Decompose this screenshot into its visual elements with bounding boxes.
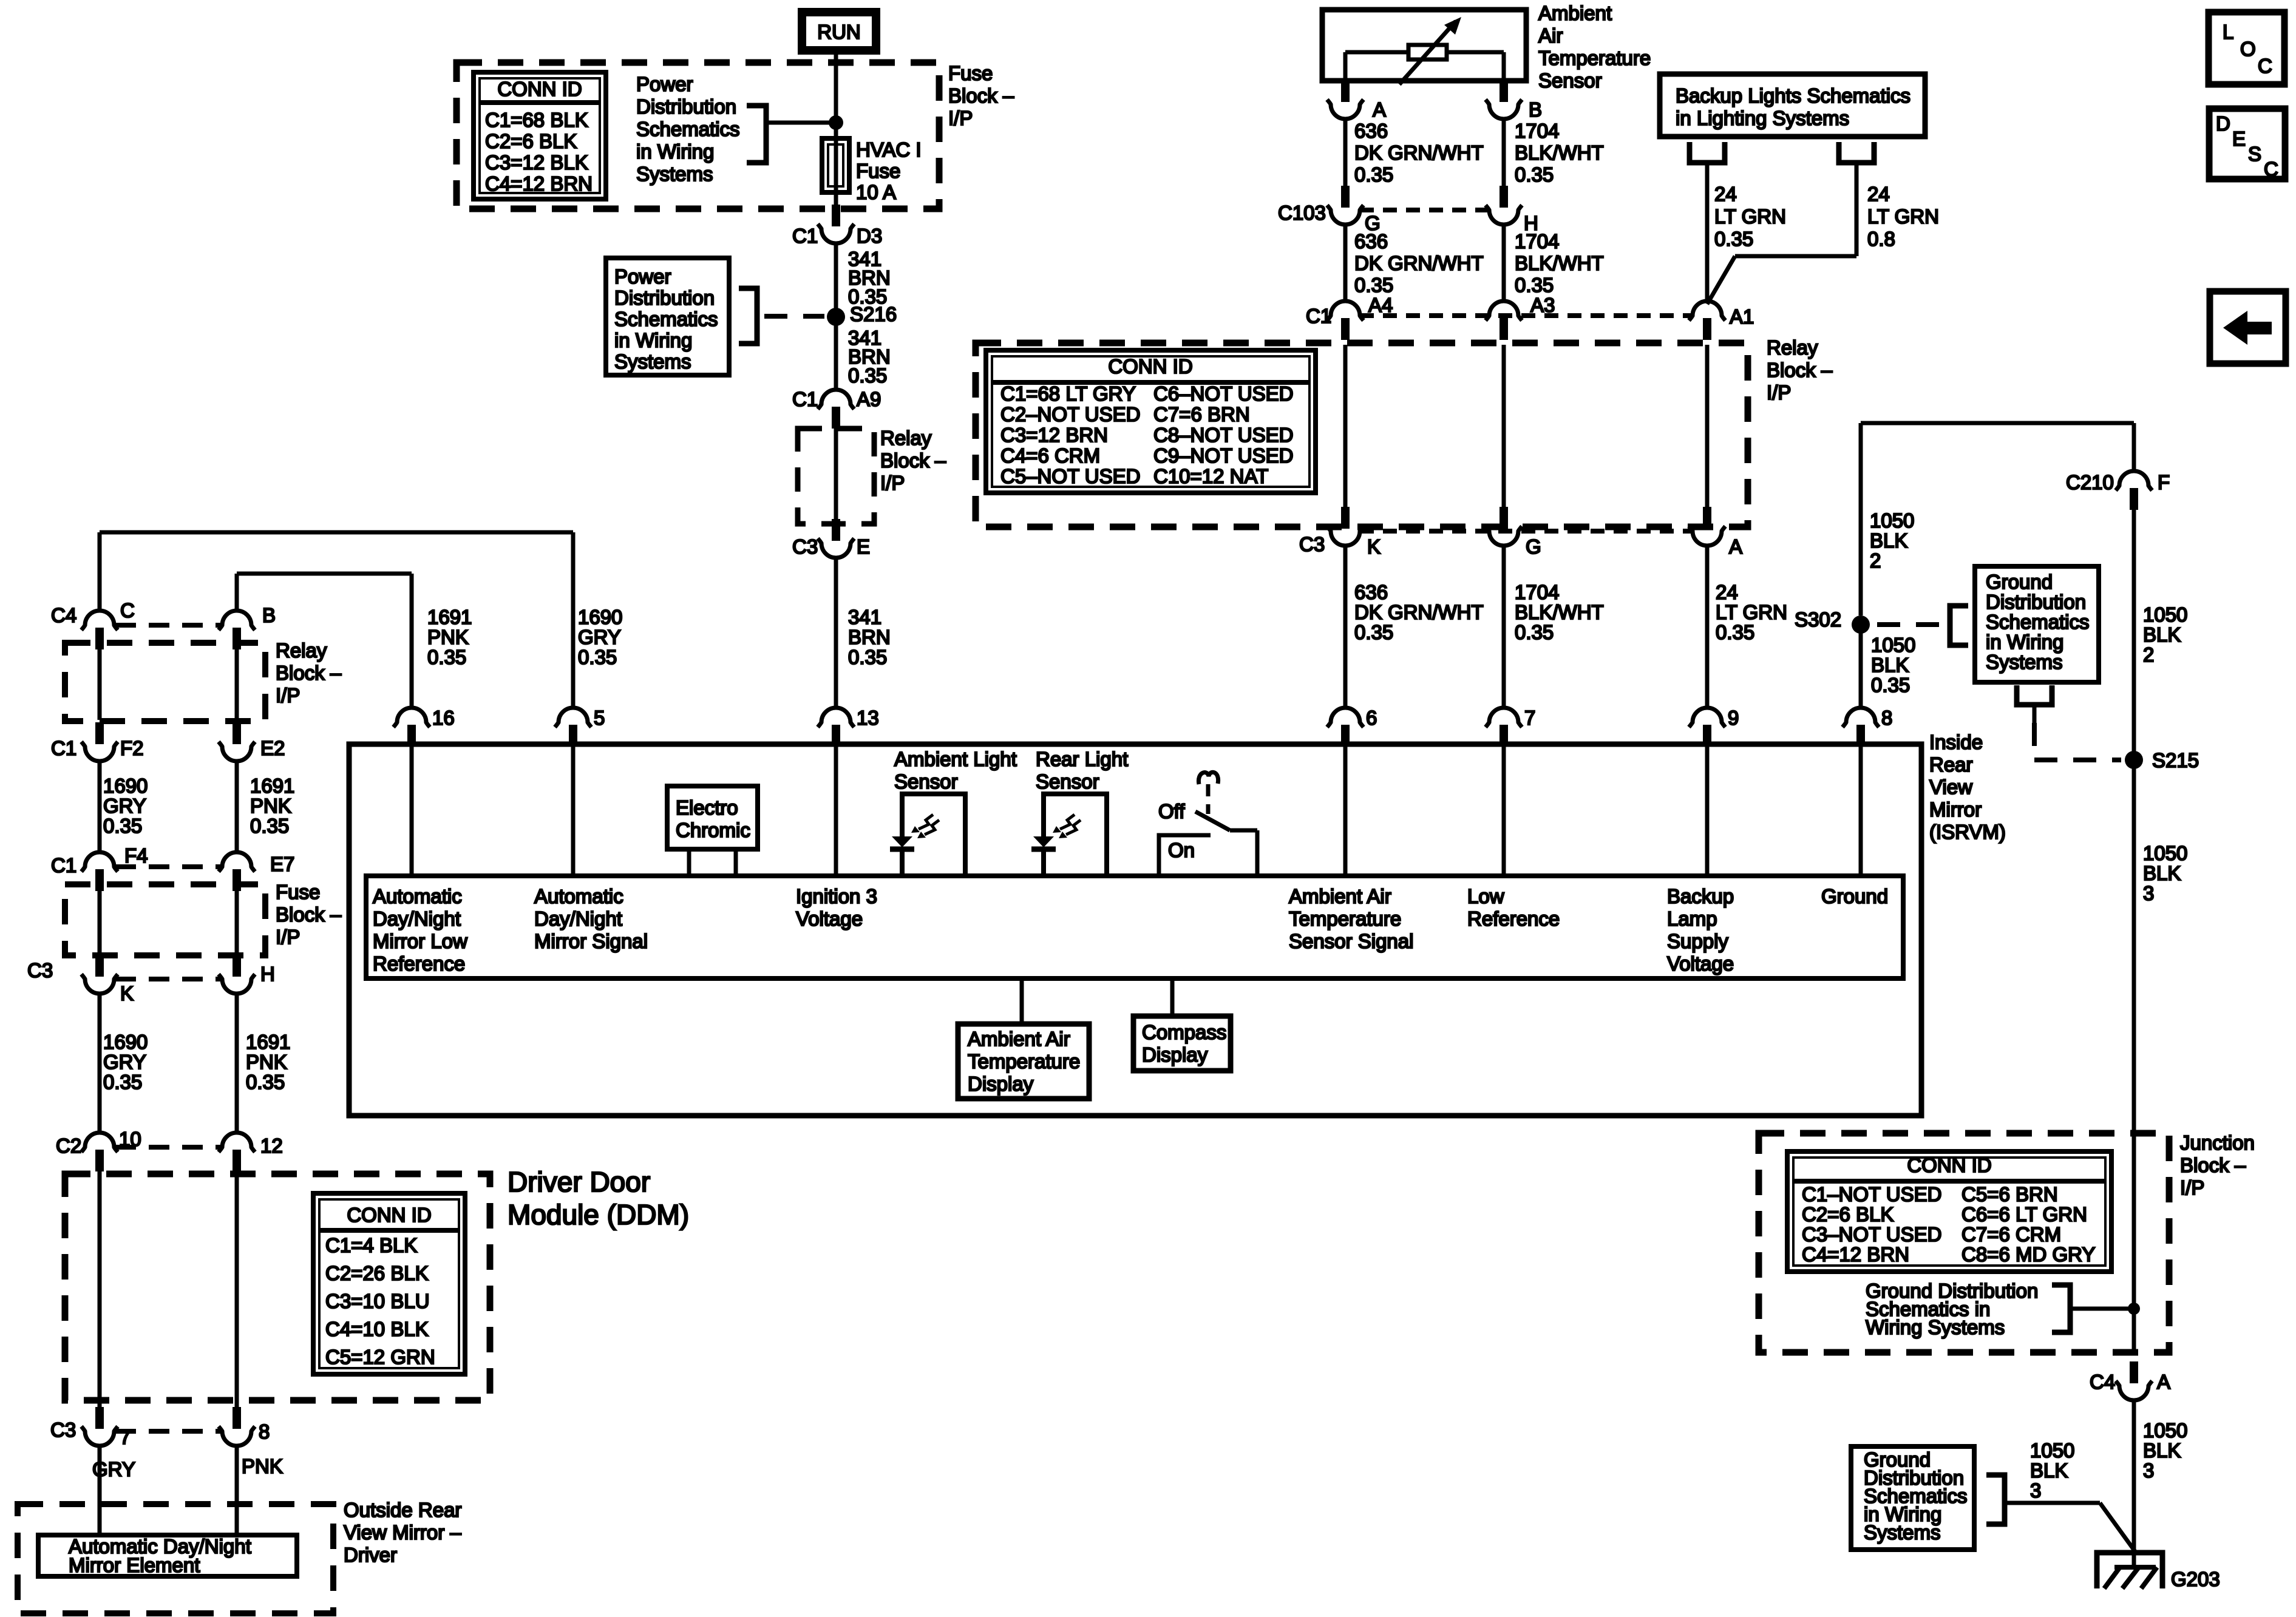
wire 24 LT GRN to pin 9 [1705,546,1710,708]
sensor lead right [1502,52,1506,82]
Power Distribution Schematics box [606,258,729,375]
LOC legend box [2209,12,2284,84]
svg-text:1690GRY0.35: 1690GRY0.35 [578,606,622,668]
svg-text:C1: C1 [792,388,818,410]
svg-text:C1=68 LT GRY: C1=68 LT GRY [1000,382,1136,405]
svg-text:D3: D3 [857,225,882,247]
wire through left relay block 2 [235,649,239,720]
svg-text:S216: S216 [850,303,897,325]
svg-text:8: 8 [259,1420,270,1443]
electro chromic element box [667,786,758,849]
svg-text:C1=4 BLK: C1=4 BLK [325,1234,417,1256]
wire 24 LT GRN 0.8 horizontal [1735,254,1856,259]
splice S302 [1852,615,1870,634]
connector E7 [219,852,255,891]
outside rear view mirror driver dashed box [18,1504,333,1613]
svg-text:O: O [2240,38,2256,60]
connector C103 H [1486,186,1522,225]
svg-text:1690GRY0.35: 1690GRY0.35 [103,775,148,837]
fork lead under ground distribution box [2017,685,2052,705]
connector C3 A [1689,507,1725,546]
Backup Lights Schematics box [1660,74,1925,137]
dashed link bracket to S216 [764,314,824,319]
dashed connector row C3 relay block [1360,529,1693,534]
connector C1 A9 [818,390,854,429]
svg-text:9: 9 [1728,707,1739,729]
svg-text:C3=10 BLU: C3=10 BLU [325,1290,430,1312]
svg-text:B: B [1529,98,1542,121]
wire bracket to node [769,121,836,125]
svg-text:C4=12 BRN: C4=12 BRN [485,172,593,195]
wire 1050 BLK 2 top horizontal [1861,421,2134,425]
inside rear view mirror ISRVM box [349,744,1921,1116]
Ground Distribution Schematics box right [1975,566,2099,682]
bracket to Ground Distribution box [1950,606,1968,645]
wire pin 6 stub inside ISRVM [1343,745,1348,876]
svg-text:A9: A9 [857,388,881,410]
variable resistor arrow [1399,21,1456,84]
splice S216 [827,308,845,326]
wire 1690 GRY down to C4-C [98,532,102,611]
connector ISRVM pin 13 [818,708,854,747]
svg-text:D: D [2216,112,2230,135]
wire 1704 BLK/WHT C103 to C1-A3 [1502,225,1506,302]
ambient air temperature sensor box [1322,10,1526,81]
node on junction wire [2128,1303,2140,1315]
CONN ID table relay block [986,350,1316,493]
wire 1050 BLK 2 down to S302 [1859,423,1863,615]
svg-text:C2=26 BLK: C2=26 BLK [325,1262,429,1284]
relay block I/P dashed box [976,343,1748,527]
svg-text:C1–NOT USED: C1–NOT USED [1802,1183,1941,1205]
bracket ground distribution junction [2052,1285,2070,1332]
svg-text:L: L [2223,21,2233,43]
wire 636 DK GRN/WHT sensor to C103 [1343,119,1348,186]
svg-text:6: 6 [1366,707,1377,729]
connector C3 pin 7 [81,1407,118,1446]
svg-text:C: C [2258,55,2272,77]
connector C3 K [1327,507,1364,546]
connector C1 F4 [81,852,118,891]
svg-text:AutomaticDay/NightMirror LowRe: AutomaticDay/NightMirror LowReference [373,885,467,975]
wire through DDM 1 [98,1171,102,1407]
svg-text:C3: C3 [792,535,818,558]
fork lead right of backup lights box [1839,142,1874,163]
svg-text:C3=12 BLK: C3=12 BLK [485,151,588,174]
wire pin 7 stub inside ISRVM [1502,745,1506,876]
wire 1704 BLK/WHT sensor to C103 [1502,119,1506,186]
variable resistor element [1408,45,1447,59]
connector C4 C [81,611,118,649]
svg-text:F4: F4 [124,844,148,867]
svg-text:H: H [260,963,275,985]
wire 24 LT GRN 0.35 to A1 [1705,163,1710,302]
svg-text:A: A [2157,1371,2170,1393]
svg-text:G: G [1526,535,1541,558]
svg-text:S215: S215 [2152,749,2199,771]
connector ISRVM pin 8 [1843,708,1879,747]
wire A3 to C3-G inside relay block [1502,345,1506,510]
connector B [219,611,255,649]
svg-text:C10=12 NAT: C10=12 NAT [1153,465,1268,487]
wire diagonal to ground [2100,1503,2135,1551]
junction block I/P dashed box [1759,1133,2169,1352]
svg-text:C1: C1 [1306,305,1331,327]
connector pin 12 [219,1133,255,1171]
wire GRY to mirror element [98,1446,102,1535]
ambient air temperature display box [958,1024,1089,1099]
svg-text:B: B [262,604,276,626]
Ground Distribution Schematics box bottom [1851,1446,1974,1550]
svg-text:C210: C210 [2066,471,2114,493]
svg-text:C4=10 BLK: C4=10 BLK [325,1318,429,1340]
wire through left relay block 1 [98,649,102,720]
connector ISRVM pin 9 [1689,708,1725,747]
svg-text:E7: E7 [270,853,294,875]
dashed connector row K H [115,977,221,981]
wire bracket to junction wire [2070,1307,2134,1311]
svg-text:CONN ID: CONN ID [1907,1154,1991,1176]
svg-text:C1: C1 [792,225,818,247]
wire 1691 PNK down to B [235,574,239,611]
svg-text:C5–NOT USED: C5–NOT USED [1000,465,1140,487]
dashed connector row C1 relay block [1360,313,1693,318]
sensor lead left [1343,52,1348,82]
svg-text:C3: C3 [27,959,53,981]
svg-text:C5=12 GRN: C5=12 GRN [325,1346,435,1368]
svg-text:C103: C103 [1278,202,1326,224]
wire pin 8 stub inside ISRVM [1859,745,1863,876]
wire 24 LT GRN diagonal to A1 [1707,256,1735,304]
stem under fork [2033,705,2037,723]
svg-text:E: E [2232,127,2246,150]
svg-text:C1: C1 [51,854,76,876]
switch off/on [1159,772,1257,876]
wire pin 16 stub inside ISRVM [410,745,414,876]
svg-text:16: 16 [432,707,455,729]
svg-text:BackupLampSupplyVoltage: BackupLampSupplyVoltage [1667,885,1734,975]
wire RUN voltage down to fuse block / HVAC I fuse [834,55,838,209]
svg-text:E: E [857,535,870,558]
wire 341 BRN from C1-D3 to S216 [834,243,838,308]
dashed connector row C2 [115,1145,221,1150]
svg-text:CONN ID: CONN ID [497,78,582,100]
wire 1691 PNK E2 to E7 [235,761,239,853]
dashed link down to S215 level [2032,723,2037,760]
ISRVM pin function label box [366,876,1903,978]
wire 1691 PNK horizontal [237,572,412,576]
svg-text:1691PNK0.35: 1691PNK0.35 [250,775,294,837]
connector C4 A [2116,1361,2152,1400]
wire inside sensor [1345,50,1504,55]
photodiode ambient light sensor [890,794,965,876]
connector C1 A3 [1486,301,1522,340]
svg-text:RUN: RUN [817,21,861,43]
compass display box [1133,1016,1231,1071]
svg-text:7: 7 [1524,707,1535,729]
svg-text:C4: C4 [51,604,76,626]
wire 1690 GRY K to DDM 10 [98,994,102,1133]
svg-text:C2: C2 [56,1134,81,1157]
wire 341 BRN from S216 to C1-A9 [834,317,838,390]
svg-text:GRY: GRY [92,1458,135,1480]
wire 1690 GRY F2 to F4 [98,761,102,853]
svg-text:C7=6 BRN: C7=6 BRN [1153,403,1250,425]
connector ISRVM pin 6 [1327,708,1364,747]
dashed connector row F4 E7 [115,864,221,869]
wire pin 5 stub inside ISRVM [571,745,576,876]
wire 1690 GRY top horizontal [100,531,573,535]
CONN ID table fuse block [474,72,606,199]
svg-text:C7=6 CRM: C7=6 CRM [1961,1223,2061,1246]
wire 1050 BLK 3 down to junction block [2132,768,2136,1352]
connector C1 D3 [818,205,854,243]
CONN ID table DDM [313,1193,465,1374]
ground G203 symbol [2097,1553,2162,1588]
svg-text:On: On [1168,839,1195,861]
svg-text:1691PNK0.35: 1691PNK0.35 [427,606,472,668]
wire PNK to mirror element [235,1446,239,1535]
fuse block I/P dashed box left [65,884,265,955]
svg-text:C3: C3 [50,1419,76,1441]
fork lead left of backup lights box [1690,142,1725,163]
wire 24 LT GRN 0.8 down [1855,163,1859,256]
bracket ground distribution bottom [1986,1475,2005,1524]
connector C3 G [1486,507,1522,546]
svg-text:F: F [2158,471,2170,493]
svg-text:C2=6 BLK: C2=6 BLK [485,130,577,152]
svg-text:8: 8 [1881,707,1892,729]
svg-text:C2–NOT USED: C2–NOT USED [1000,403,1140,425]
svg-text:K: K [1367,535,1381,558]
wire to ambient air temperature display [1020,978,1024,1026]
svg-text:A: A [1729,535,1742,558]
svg-text:1690GRY0.35: 1690GRY0.35 [103,1031,148,1093]
svg-text:C4: C4 [2090,1371,2115,1393]
svg-text:S: S [2248,143,2261,165]
svg-text:C3–NOT USED: C3–NOT USED [1802,1223,1941,1246]
svg-text:C2=6 BLK: C2=6 BLK [1802,1203,1894,1225]
svg-text:G203: G203 [2171,1568,2220,1590]
svg-text:A: A [1373,98,1386,121]
svg-text:C9–NOT USED: C9–NOT USED [1153,444,1293,467]
wire electro chromic leg left [687,849,691,876]
connector C210 F [2116,471,2152,510]
connector C1 F2 [81,722,118,761]
wire 1691 PNK H to DDM 12 [235,994,239,1133]
wire through relay block [834,429,838,519]
wire 1691 PNK down to pin 16 [410,574,414,708]
connector ISRVM pin 7 [1486,708,1522,747]
svg-text:5: 5 [594,707,605,729]
wire 1050 BLK 2 down to S215 [2132,510,2136,751]
wire A4 to C3-K inside relay block [1343,345,1348,510]
RUN ignition switch box [798,8,880,55]
connector C3 K left [81,955,118,994]
wire bracket toward ground [2005,1501,2100,1505]
svg-text:A1: A1 [1730,305,1754,328]
wire pin 13 stub inside ISRVM [834,745,838,876]
svg-text:Ground: Ground [1821,885,1888,907]
svg-text:C3=12 BRN: C3=12 BRN [1000,424,1108,446]
wire down to C210 [2132,423,2136,472]
bracket to Power Distribution box [739,288,757,344]
wire pin 9 stub inside ISRVM [1705,745,1710,876]
wire 1050 BLK 3 to G203 [2132,1400,2136,1567]
CONN ID table junction block [1787,1151,2111,1272]
svg-text:C1: C1 [51,737,76,759]
svg-text:C4=6 CRM: C4=6 CRM [1000,444,1100,467]
photodiode rear light sensor [1031,794,1107,876]
svg-text:C: C [2264,158,2278,180]
back arrow legend box [2210,291,2286,364]
relay block I/P dashed box left [65,643,265,721]
svg-text:C3: C3 [1299,533,1325,555]
wire through DDM 2 [235,1171,239,1407]
svg-text:C: C [120,599,135,622]
svg-text:C8–NOT USED: C8–NOT USED [1153,424,1293,446]
connector ISRVM pin 5 [555,708,591,747]
fuse block I/P dashed box [457,63,939,209]
wire A1 to C3-A inside relay block [1705,345,1710,510]
splice S215 [2125,751,2143,769]
svg-text:K: K [120,982,134,1005]
wire 1050 BLK 0.35 S302 to pin 8 [1859,633,1863,708]
connector E2 [219,722,255,761]
connector H left [219,955,255,994]
svg-text:C4=12 BRN: C4=12 BRN [1802,1243,1909,1266]
svg-text:C6–NOT USED: C6–NOT USED [1153,382,1293,405]
dashed connector row C3 bottom [115,1429,221,1434]
connector C3 E [818,519,854,558]
svg-text:C8=6 MD GRY: C8=6 MD GRY [1961,1243,2095,1266]
wire 341 BRN to ISRVM pin 13 [834,558,838,708]
connector terminal B of sensor [1486,80,1522,119]
svg-text:C6=6 LT GRN: C6=6 LT GRN [1961,1203,2087,1225]
svg-text:CONN ID: CONN ID [1108,355,1192,378]
svg-text:E2: E2 [260,737,285,759]
wire 1704 BLK/WHT to pin 7 [1502,546,1506,708]
dashed connector row C4 [115,623,221,628]
wire through left fuse block 1 [98,891,102,954]
svg-text:PNK: PNK [242,1455,283,1477]
automatic day/night mirror element box [38,1535,297,1576]
svg-text:CONN ID: CONN ID [347,1204,431,1226]
connector terminal A of sensor [1327,80,1364,119]
connector C3 pin 8 [219,1407,255,1446]
driver door module dashed box [65,1174,490,1400]
wire to compass display [1170,978,1175,1018]
relay block I/P small dashed box [798,429,874,524]
wire 636 DK GRN/WHT C103 to C1-A4 [1343,225,1348,302]
dashed connector row C103 [1360,208,1489,212]
bracket to Power Distribution reference [747,106,766,163]
wire 636 DK GRN/WHT to pin 6 [1343,546,1348,708]
node junction at fuse feed [829,115,843,130]
fuse HVAC I 10 A symbol [822,138,849,192]
connector C1 A1 [1689,301,1725,340]
svg-text:A4: A4 [1368,294,1393,316]
svg-text:A3: A3 [1530,294,1555,316]
DESC legend box [2209,109,2285,180]
wire electro chromic leg right [734,849,738,876]
svg-text:13: 13 [857,707,879,729]
dashed link across to S215 [2034,758,2121,762]
svg-text:12: 12 [260,1134,283,1157]
wire through left fuse block 2 [235,891,239,954]
connector C1 A4 [1327,301,1364,340]
svg-text:Off: Off [1158,800,1185,822]
connector ISRVM pin 16 [393,708,430,747]
svg-text:C5=6 BRN: C5=6 BRN [1961,1183,2058,1205]
dashed link S302 to ground distribution [1877,622,1940,627]
connector C2 pin 10 [81,1133,118,1171]
connector C103 G [1327,186,1364,225]
wire 1690 GRY down to pin 5 [571,532,576,708]
svg-text:C1=68 BLK: C1=68 BLK [485,109,588,131]
svg-text:S302: S302 [1795,608,1841,631]
svg-text:1691PNK0.35: 1691PNK0.35 [246,1031,290,1093]
svg-text:F2: F2 [120,737,144,759]
